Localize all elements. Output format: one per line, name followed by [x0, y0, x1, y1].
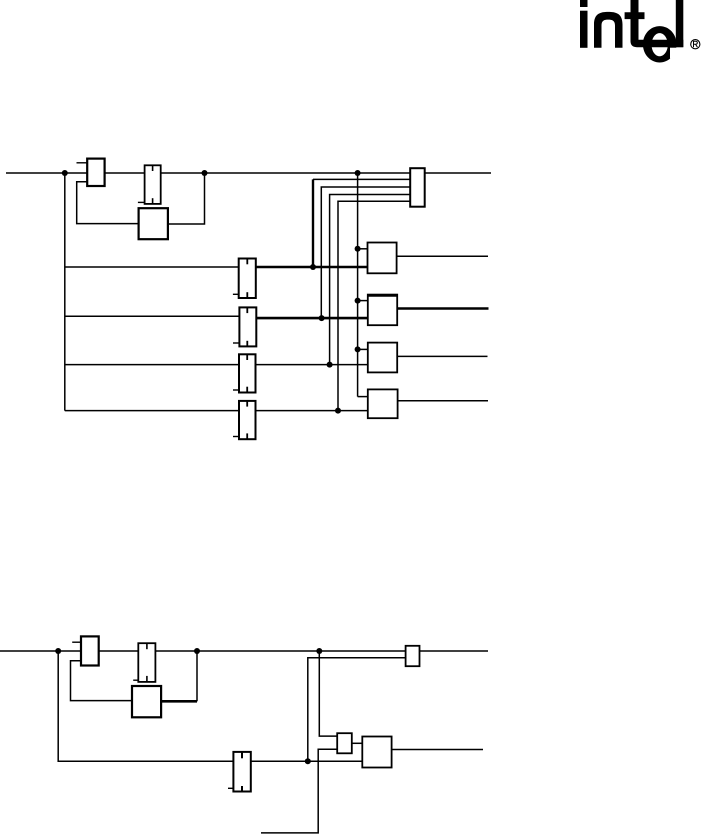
wire U7 node vertical [196, 651, 198, 701]
junction node bus b3 [327, 362, 333, 368]
junction node bus b4 [335, 408, 341, 414]
wire row 4 input [65, 410, 239, 412]
wire bus b1 vertical (thick) [312, 179, 314, 267]
wire latch L2 output (thick) [256, 317, 368, 320]
wire latch L3 output [256, 364, 368, 366]
logo e opening (white notch) [670, 48, 678, 59]
wire clock vertical [357, 173, 359, 397]
wire R2 output (thick) [397, 307, 488, 310]
latch L2 [233, 307, 256, 346]
wire latch L5 input [58, 651, 233, 761]
logo letter t with foot bar [625, 0, 684, 47]
intel logo [580, 0, 683, 63]
buffer U8 [406, 646, 420, 666]
wire R3 output [397, 355, 487, 357]
wire row 3 input [65, 364, 239, 366]
latch L4 [233, 401, 256, 439]
logo dropped letter e [643, 26, 677, 62]
wire feedback U5 to U7 [71, 661, 133, 701]
latch L1 [233, 259, 256, 299]
junction node lower clock tap [316, 648, 322, 654]
wire feedback U1 to U3 [77, 182, 139, 224]
wire R4 output [398, 400, 488, 402]
wire clock stub R1 [358, 248, 368, 250]
junction node main line clock tap [355, 170, 361, 176]
wire latch L4 output [256, 410, 368, 412]
junction node bus b2 [319, 315, 325, 321]
wire U9 lower input going off page [261, 749, 337, 833]
gate U9 [337, 733, 352, 753]
wire main input line [6, 172, 410, 174]
wire bus b1 horizontal [313, 178, 410, 180]
wire row 1 input [65, 266, 239, 268]
junction node latch L5 output [305, 758, 311, 764]
junction node lower main input [55, 648, 61, 654]
register R5 [362, 737, 391, 768]
latch L3 [233, 354, 256, 392]
wire main output line lower [420, 650, 489, 652]
flip-flop U6 [133, 643, 155, 682]
wire main input line lower [0, 650, 406, 652]
logo letter i stem [580, 11, 588, 48]
wire clock stub R3 [358, 348, 368, 350]
junction node clock R3 [355, 346, 361, 352]
wire clock stub R4 [358, 396, 368, 398]
wire U7 output up to node (thick) [161, 700, 197, 703]
wire clock stub R2 [358, 300, 368, 302]
junction node lower U7 [194, 648, 200, 654]
wire node to gate U9 top input [319, 651, 337, 736]
wire bus b3 [330, 195, 411, 365]
logo letter l [676, 0, 684, 47]
wire U3 output up to main node [168, 173, 205, 224]
logo letter n [594, 12, 623, 48]
register R3 [368, 343, 397, 373]
delay element U7 [132, 686, 161, 717]
buffer U5 [72, 636, 99, 665]
delay element U3 [139, 208, 168, 239]
junction node on main line at input [62, 170, 68, 176]
register R2 [368, 295, 397, 326]
wire latch L1 output (thick) [256, 266, 368, 269]
wire R5 output [392, 749, 483, 751]
buffer U1 [77, 159, 105, 186]
wire bus b4 [338, 201, 410, 410]
wire U9 to R5 [352, 742, 363, 744]
logo registered mark [691, 40, 700, 49]
register R4 [368, 389, 398, 418]
wire R1 output [397, 255, 488, 257]
junction node main line mid [202, 170, 208, 176]
junction node clock R2 [355, 298, 361, 304]
register R1 [368, 243, 397, 274]
flip-flop U2 [138, 165, 161, 204]
logo letter i dot [580, 0, 588, 7]
wire clock stub to U8 [308, 658, 406, 762]
wire latch L5 output [251, 760, 362, 762]
latch L5 [228, 752, 251, 792]
junction node bus b1 [310, 264, 316, 270]
wire main output line [425, 172, 491, 174]
wire bus b2 [321, 187, 410, 318]
wire row 2 input [65, 315, 240, 317]
junction node clock R1 [355, 246, 361, 252]
bus buffer U4 [410, 168, 425, 207]
wire row feed vertical [64, 173, 66, 411]
